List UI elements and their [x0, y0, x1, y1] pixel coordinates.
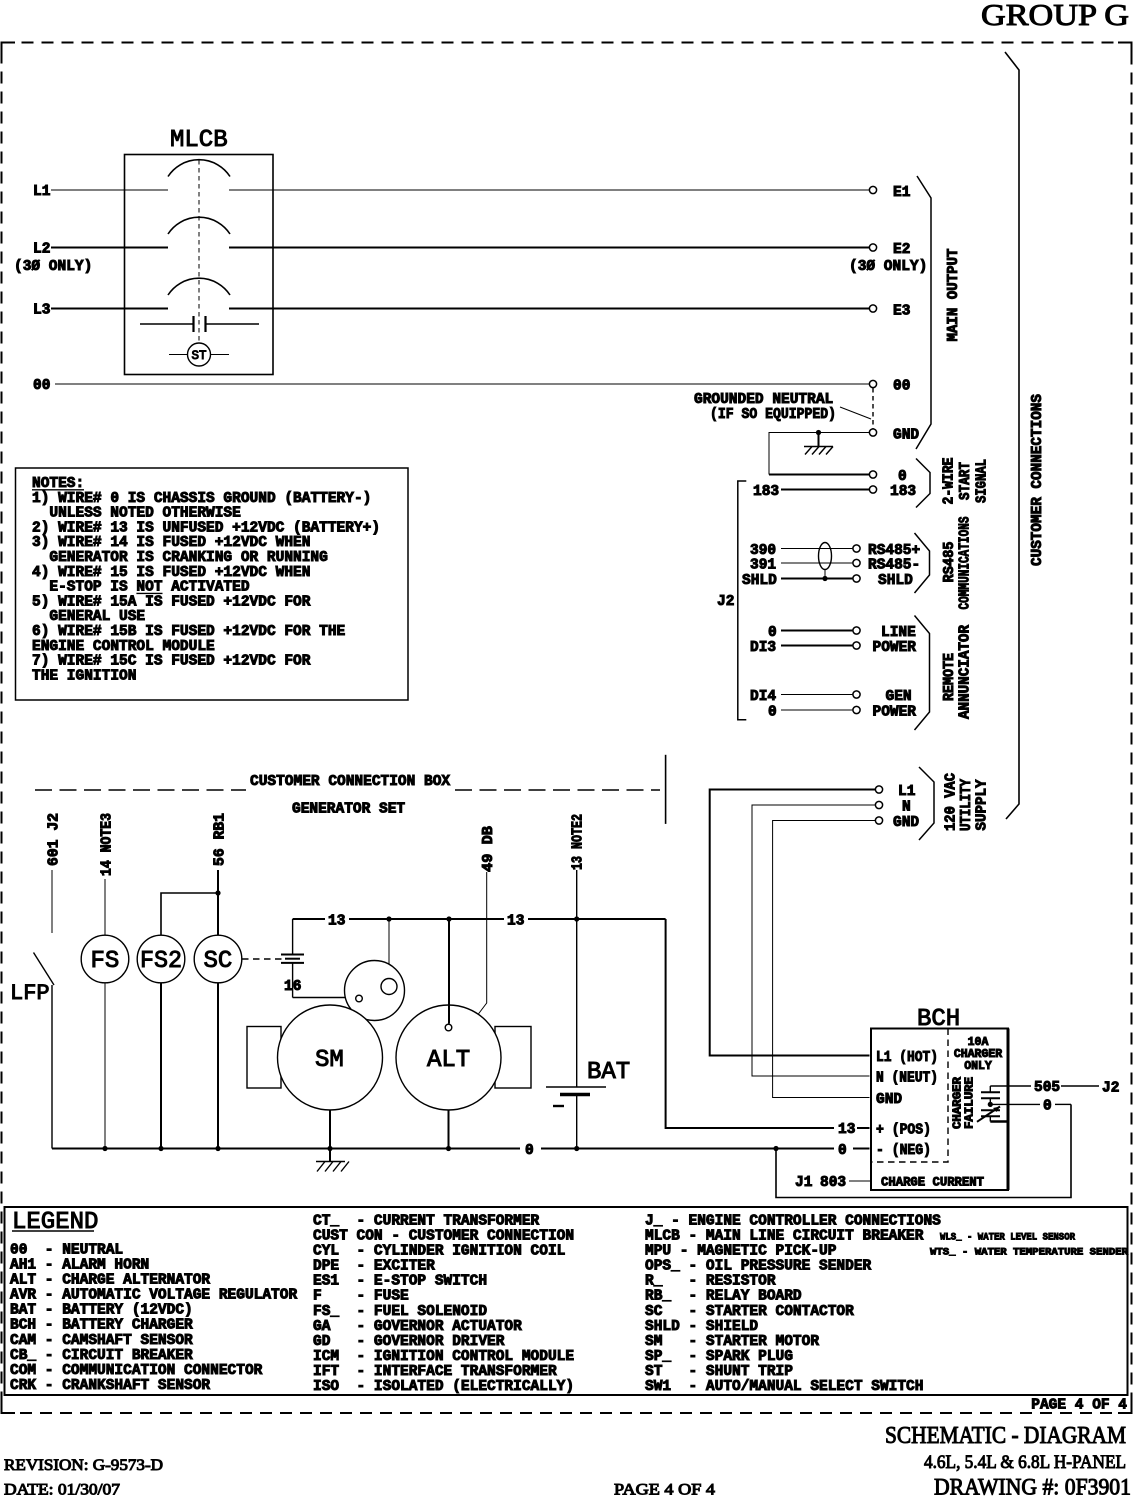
wire L3 to E3 [229, 308, 870, 310]
breaker pole arc L3 [168, 278, 230, 295]
svg-text:+ (POS): + (POS) [876, 1123, 931, 1139]
BCH box [871, 1029, 1008, 1191]
junction FS2/SC [215, 890, 220, 895]
svg-text:13: 13 [507, 914, 524, 930]
svg-text:SP_ - SPARK PLUG: SP_ - SPARK PLUG [645, 1349, 793, 1365]
svg-text:GND: GND [893, 815, 919, 831]
svg-text:BAT - BATTERY (12VDC): BAT - BATTERY (12VDC) [10, 1303, 193, 1319]
svg-text:SC - STARTER CONTACTOR: SC - STARTER CONTACTOR [645, 1304, 854, 1320]
svg-text:SIGNAL: SIGNAL [975, 459, 991, 503]
wire 00 to terminal [55, 383, 870, 385]
svg-text:FAILURE: FAILURE [964, 1077, 977, 1129]
starter pinion circle [345, 961, 405, 1021]
svg-text:MLCB - MAIN LINE CIRCUIT BREAK: MLCB - MAIN LINE CIRCUIT BREAKER [645, 1229, 924, 1245]
bracket CUSTOMER CONNECTIONS [1005, 52, 1019, 819]
svg-text:(IF SO EQUIPPED): (IF SO EQUIPPED) [710, 407, 836, 423]
terminal POWER (gen) [853, 706, 860, 713]
svg-text:R_ - RESISTOR: R_ - RESISTOR [645, 1274, 776, 1290]
terminal 00 [869, 380, 876, 387]
notes box [16, 468, 409, 700]
svg-text:SHLD - SHIELD: SHLD - SHIELD [645, 1319, 758, 1335]
SC top lead [217, 870, 219, 935]
wire L1 left [51, 189, 168, 191]
svg-text:GA - GOVERNOR ACTUATOR: GA - GOVERNOR ACTUATOR [313, 1319, 522, 1335]
starter contactor SC circle [194, 935, 242, 983]
wire 13 down to BCH [666, 919, 834, 1128]
battery lead bottom [576, 1095, 578, 1149]
svg-text:4) WIRE# 15 IS FUSED +12VDC WH: 4) WIRE# 15 IS FUSED +12VDC WHEN [32, 565, 310, 581]
svg-text:GENERAL USE: GENERAL USE [49, 609, 145, 625]
svg-text:SHLD: SHLD [742, 573, 777, 589]
legend column 3 [645, 1213, 941, 1395]
dashed link 00 to GND [872, 388, 874, 429]
starter motor SM circle [278, 1005, 383, 1110]
svg-text:DRAWING #: 0F3901: DRAWING #: 0F3901 [934, 1475, 1131, 1497]
svg-text:AVR - AUTOMATIC VOLTAGE REGULA: AVR - AUTOMATIC VOLTAGE REGULATOR [10, 1288, 297, 1304]
svg-text:OPS_ - OIL PRESSURE SENDER: OPS_ - OIL PRESSURE SENDER [645, 1259, 872, 1275]
svg-text:6) WIRE# 15B IS FUSED +12VDC F: 6) WIRE# 15B IS FUSED +12VDC FOR THE [32, 624, 346, 640]
ALT bottom lead [448, 1110, 450, 1149]
MLCB centerline (dashed) [198, 160, 200, 343]
svg-text:E1: E1 [893, 185, 911, 201]
svg-text:N: N [902, 800, 911, 816]
svg-text:13 NOTE2: 13 NOTE2 [571, 814, 587, 870]
svg-text:J2: J2 [717, 594, 734, 610]
svg-text:803: 803 [820, 1175, 846, 1191]
svg-text:CHARGE CURRENT: CHARGE CURRENT [881, 1176, 984, 1190]
terminal LINE [853, 627, 860, 634]
svg-text:5) WIRE# 15A IS FUSED +12VDC F: 5) WIRE# 15A IS FUSED +12VDC FOR [32, 594, 311, 610]
wire crossing boundary [665, 755, 667, 824]
terminal N utility [875, 801, 882, 808]
bracket MAIN OUTPUT [916, 176, 931, 449]
terminal E2 [869, 244, 876, 251]
svg-text:L2: L2 [33, 242, 50, 258]
bracket 120 VAC [919, 767, 934, 840]
bracket REMOTE ANNUNCIATOR [915, 616, 930, 731]
svg-text:POWER: POWER [873, 640, 917, 656]
svg-text:4.6L, 5.4L & 6.8L H-PANEL: 4.6L, 5.4L & 6.8L H-PANEL [924, 1452, 1126, 1473]
svg-text:3) WIRE# 14 IS FUSED +12VDC WH: 3) WIRE# 14 IS FUSED +12VDC WHEN [32, 535, 310, 551]
svg-text:AH1 - ALARM HORN: AH1 - ALARM HORN [10, 1258, 149, 1274]
MLCB box [125, 155, 274, 375]
svg-text:- (NEG): - (NEG) [876, 1143, 931, 1159]
switch LFP fixed lead [51, 870, 53, 933]
svg-text:13: 13 [838, 1122, 855, 1138]
switch LFP blade [34, 953, 55, 986]
svg-text:SM - STARTER MOTOR: SM - STARTER MOTOR [645, 1334, 819, 1350]
svg-text:WLS_ - WATER LEVEL SENSOR: WLS_ - WATER LEVEL SENSOR [940, 1232, 1076, 1244]
svg-text:BCH - BATTERY CHARGER: BCH - BATTERY CHARGER [10, 1318, 193, 1334]
legend column 1 [10, 1242, 297, 1394]
wire 0 from relay [990, 1103, 1040, 1105]
starter motor brush box [247, 1027, 281, 1089]
svg-text:L1: L1 [33, 184, 51, 200]
terminal E1 [869, 186, 876, 193]
svg-text:SUPPLY: SUPPLY [975, 779, 991, 830]
svg-text:56 RB1: 56 RB1 [213, 813, 229, 866]
svg-text:COMMUNICATIONS: COMMUNICATIONS [958, 516, 974, 609]
shunt trip coil contact [140, 316, 259, 332]
svg-text:SC: SC [204, 948, 233, 975]
svg-text:505: 505 [1034, 1080, 1060, 1096]
legend column 2 [313, 1213, 574, 1395]
svg-text:POWER: POWER [873, 705, 917, 721]
wire 505 [990, 1085, 1031, 1087]
svg-text:GEN: GEN [886, 689, 912, 705]
junction wire13 battery [574, 916, 579, 921]
svg-text:DI3: DI3 [750, 640, 776, 656]
FS2 top lead to SC line [161, 893, 218, 935]
svg-text:J_ - ENGINE CONTROLLER CONNECT: J_ - ENGINE CONTROLLER CONNECTIONS [645, 1213, 941, 1229]
notes text [32, 476, 380, 684]
terminal GEN [853, 691, 860, 698]
svg-text:WTS_ - WATER TEMPERATURE SENDE: WTS_ - WATER TEMPERATURE SENDER [930, 1247, 1129, 1259]
svg-text:DI4: DI4 [750, 689, 776, 705]
svg-text:ISO - ISOLATED (ELECTRICALLY): ISO - ISOLATED (ELECTRICALLY) [313, 1379, 574, 1395]
svg-text:LINE: LINE [881, 625, 916, 641]
shunt trip ST circle [188, 343, 211, 366]
svg-text:THE IGNITION: THE IGNITION [32, 668, 136, 684]
wire 0 line-power [781, 630, 852, 632]
wire 0 bottom bus [52, 1148, 520, 1150]
wire 13 bus [293, 918, 325, 920]
svg-text:13: 13 [328, 914, 345, 930]
svg-text:IFT - INTERFACE TRANSFORMER: IFT - INTERFACE TRANSFORMER [313, 1364, 557, 1380]
svg-text:ENGINE CONTROL MODULE: ENGINE CONTROL MODULE [32, 639, 215, 655]
svg-text:F - FUSE: F - FUSE [313, 1289, 409, 1305]
svg-text:LFP: LFP [10, 981, 50, 1006]
SC actuation dashed link [242, 958, 282, 960]
svg-text:0: 0 [525, 1143, 534, 1159]
terminal 0 (2-wire start) [869, 471, 876, 478]
chassis ground symbol [804, 447, 833, 455]
svg-text:J2: J2 [1102, 1081, 1119, 1097]
SC bottom lead [217, 983, 219, 1149]
svg-text:MLCB: MLCB [170, 127, 228, 154]
svg-text:GENERATOR IS CRANKING OR RUNNI: GENERATOR IS CRANKING OR RUNNING [49, 550, 327, 566]
battery plate positive [546, 1086, 606, 1088]
switch LFP lower lead [51, 985, 53, 1149]
svg-text:183: 183 [753, 484, 779, 500]
breaker pole arc L2 [168, 217, 230, 234]
svg-text:UTILITY: UTILITY [959, 779, 975, 831]
svg-text:CUSTOMER CONNECTIONS: CUSTOMER CONNECTIONS [1030, 394, 1046, 566]
battery BAT lead top [576, 870, 578, 1087]
svg-text:PAGE 4 OF 4: PAGE 4 OF 4 [1031, 1398, 1127, 1414]
svg-text:120 VAC: 120 VAC [944, 773, 960, 831]
svg-text:183: 183 [890, 484, 916, 500]
wire L3 left [51, 308, 168, 310]
SM bottom lead [329, 1110, 331, 1149]
svg-text:GENERATOR SET: GENERATOR SET [292, 802, 405, 818]
svg-text:00: 00 [33, 378, 50, 394]
terminal L1 utility [875, 786, 882, 793]
wire 0 return loop [776, 1104, 1071, 1197]
svg-text:RS485: RS485 [942, 542, 958, 583]
svg-text:BAT: BAT [587, 1059, 630, 1086]
svg-text:REVISION: G-9573-D: REVISION: G-9573-D [4, 1457, 163, 1474]
legend box [5, 1207, 1128, 1395]
wire DI3 [781, 645, 852, 647]
svg-text:391: 391 [750, 558, 776, 574]
leader line grounded neutral [840, 407, 871, 419]
svg-text:L1: L1 [898, 784, 916, 800]
svg-text:GND: GND [876, 1092, 902, 1108]
breaker pole arc L1 [168, 160, 230, 177]
wire N utility to BCH N(NEUT) [752, 805, 875, 1076]
wire L1 utility to BCH L1(HOT) [710, 790, 876, 1056]
svg-text:SCHEMATIC - DIAGRAM: SCHEMATIC - DIAGRAM [885, 1423, 1126, 1449]
svg-text:2) WIRE# 13 IS UNFUSED +12VDC: 2) WIRE# 13 IS UNFUSED +12VDC (BATTERY+) [32, 520, 380, 536]
wire 16 to pinion [293, 997, 356, 999]
battery minus sign [553, 1105, 564, 1107]
svg-text:2-WIRE: 2-WIRE [942, 457, 958, 504]
wire 13 to ALT terminal [448, 919, 450, 1024]
bracket RS485 [915, 533, 930, 593]
svg-text:COM - COMMUNICATION CONNECTOR: COM - COMMUNICATION CONNECTOR [10, 1363, 263, 1379]
svg-text:CUSTOMER CONNECTION BOX: CUSTOMER CONNECTION BOX [250, 774, 450, 790]
wire GND to ground [769, 433, 869, 475]
FS bottom lead [104, 983, 106, 1149]
alternator ALT circle [396, 1005, 501, 1110]
svg-text:49 DB: 49 DB [481, 826, 497, 872]
svg-text:SHLD: SHLD [878, 573, 913, 589]
svg-text:DPE - EXCITER: DPE - EXCITER [313, 1259, 435, 1275]
svg-text:DATE: 01/30/07: DATE: 01/30/07 [4, 1482, 120, 1497]
svg-text:(3Ø ONLY): (3Ø ONLY) [14, 259, 92, 275]
junction on GND wire [816, 430, 821, 435]
svg-text:ALT: ALT [427, 1047, 470, 1074]
svg-text:N (NEUT): N (NEUT) [876, 1071, 938, 1087]
charger failure relay contact [977, 1086, 1008, 1122]
svg-text:0: 0 [898, 469, 907, 485]
svg-text:ST - SHUNT TRIP: ST - SHUNT TRIP [645, 1364, 793, 1380]
svg-text:CRK - CRANKSHAFT SENSOR: CRK - CRANKSHAFT SENSOR [10, 1378, 210, 1394]
junction relay 0 [988, 1102, 993, 1107]
svg-text:ST: ST [192, 349, 208, 363]
wire L2 to E2 [229, 247, 870, 249]
FS top lead [104, 879, 106, 935]
svg-text:ALT - CHARGE ALTERNATOR: ALT - CHARGE ALTERNATOR [10, 1273, 210, 1289]
svg-text:CT_ - CURRENT TRANSFORMER: CT_ - CURRENT TRANSFORMER [313, 1213, 540, 1229]
wire GND utility to BCH GND [773, 821, 876, 1098]
wire DI4 [781, 694, 852, 696]
BCH inner dashed divider [871, 1029, 948, 1163]
connector J2 bracket [738, 481, 747, 720]
svg-text:CUST CON - CUSTOMER CONNECTION: CUST CON - CUSTOMER CONNECTION [313, 1229, 574, 1245]
pinion terminal circle [381, 979, 397, 995]
twisted pair ellipse [819, 543, 832, 570]
chassis ground SM [329, 1149, 331, 1162]
wire 390 [781, 548, 852, 550]
svg-text:SW1 - AUTO/MANUAL SELECT SWIT: SW1 - AUTO/MANUAL SELECT SWITCH [645, 1379, 923, 1395]
wire L1 to E1 [229, 189, 870, 191]
ST side leads [169, 354, 188, 356]
FS2 bottom lead [160, 983, 162, 1149]
svg-text:ANNUNCIATOR: ANNUNCIATOR [958, 625, 974, 719]
svg-text:CB_ - CIRCUIT BREAKER: CB_ - CIRCUIT BREAKER [10, 1348, 193, 1364]
junction wire13 pinion [386, 916, 391, 921]
fuel solenoid FS2 circle [137, 935, 185, 983]
svg-text:UNLESS NOTED OTHERWISE: UNLESS NOTED OTHERWISE [49, 506, 241, 522]
junction shield [822, 576, 827, 581]
svg-text:0: 0 [1043, 1099, 1052, 1115]
wire to pinion terminal [388, 919, 390, 979]
svg-text:CYL - CYLINDER IGNITION COIL: CYL - CYLINDER IGNITION COIL [313, 1244, 565, 1260]
terminal RS485- [853, 559, 860, 566]
svg-text:00: 00 [893, 379, 910, 395]
svg-text:J1: J1 [795, 1175, 813, 1191]
svg-text:14 NOTE3: 14 NOTE3 [100, 813, 116, 876]
ALT terminal circle [445, 1024, 452, 1031]
svg-text:FS_ - FUEL SOLENOID: FS_ - FUEL SOLENOID [313, 1304, 487, 1320]
svg-text:L1 (HOT): L1 (HOT) [876, 1050, 938, 1066]
wire L2 left [51, 247, 168, 249]
svg-text:ONLY: ONLY [964, 1060, 992, 1073]
terminal SHLD [853, 575, 860, 582]
svg-text:0: 0 [768, 705, 777, 721]
svg-text:L3: L3 [33, 303, 50, 319]
pinion small terminal [356, 995, 363, 1002]
legend column 4 (water sensors) [930, 1232, 1129, 1259]
wire 49 DB to ALT [478, 872, 487, 1015]
svg-text:601 J2: 601 J2 [47, 813, 63, 866]
svg-text:RB_ - RELAY BOARD: RB_ - RELAY BOARD [645, 1289, 802, 1305]
terminal 183 [869, 486, 876, 493]
svg-text:(3Ø ONLY): (3Ø ONLY) [849, 259, 927, 275]
svg-text:GROUNDED NEUTRAL: GROUNDED NEUTRAL [694, 392, 833, 408]
terminal E3 [869, 305, 876, 312]
fuel solenoid FS circle [81, 935, 129, 983]
svg-text:LEGEND: LEGEND [12, 1209, 98, 1236]
ground stem [818, 433, 820, 447]
svg-text:GD - GOVERNOR DRIVER: GD - GOVERNOR DRIVER [313, 1334, 505, 1350]
svg-text:MAIN OUTPUT: MAIN OUTPUT [946, 248, 962, 341]
svg-text:RS485-: RS485- [868, 558, 920, 574]
svg-text:GND: GND [893, 428, 919, 444]
wire J1 803 to BCH [849, 1180, 871, 1182]
terminal GND utility [875, 817, 882, 824]
svg-text:FS: FS [91, 948, 120, 975]
terminal RS485+ [853, 545, 860, 552]
svg-text:PAGE 4 OF 4: PAGE 4 OF 4 [614, 1482, 715, 1497]
svg-text:MPU - MAGNETIC PICK-UP: MPU - MAGNETIC PICK-UP [645, 1244, 837, 1260]
svg-text:ES1 - E-STOP SWITCH: ES1 - E-STOP SWITCH [313, 1274, 487, 1290]
svg-text:7) WIRE# 15C IS FUSED +12VDC F: 7) WIRE# 15C IS FUSED +12VDC FOR [32, 654, 311, 670]
terminal POWER (line) [853, 642, 860, 649]
svg-text:REMOTE: REMOTE [942, 653, 958, 701]
svg-text:E2: E2 [893, 242, 910, 258]
svg-text:E3: E3 [893, 304, 910, 320]
svg-text:GROUP G: GROUP G [981, 0, 1129, 32]
svg-text:0: 0 [768, 625, 777, 641]
bracket 2-wire start signal [916, 459, 930, 508]
shield drain wire [824, 570, 826, 579]
alternator brush box [495, 1027, 531, 1089]
svg-text:START: START [958, 462, 974, 500]
wire 16 vertical [292, 919, 294, 955]
svg-text:FS2: FS2 [140, 948, 182, 975]
junctions on wire 0 [102, 1146, 107, 1151]
junction wire13 ALT [446, 916, 451, 921]
battery plate negative [560, 1093, 590, 1096]
wire 183 [781, 489, 869, 491]
contactor 16 contact bars [281, 955, 304, 963]
wire 0 gen-power [781, 709, 852, 711]
terminal GND [869, 429, 876, 436]
wire 391 [781, 562, 852, 564]
svg-text:SM: SM [315, 1047, 344, 1074]
svg-text:0: 0 [838, 1143, 847, 1159]
wire SHLD [781, 578, 852, 580]
customer connection box dashed divider [35, 789, 246, 791]
svg-text:1) WIRE# 0 IS CHASSIS GROUND (: 1) WIRE# 0 IS CHASSIS GROUND (BATTERY-) [32, 491, 371, 507]
svg-text:00 - NEUTRAL: 00 - NEUTRAL [10, 1242, 123, 1258]
svg-text:ICM - IGNITION CONTROL MODULE: ICM - IGNITION CONTROL MODULE [313, 1349, 574, 1365]
svg-text:CAM - CAMSHAFT SENSOR: CAM - CAMSHAFT SENSOR [10, 1333, 193, 1349]
